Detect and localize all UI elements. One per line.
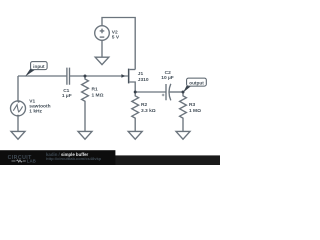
junction node source/R2 [134,91,137,94]
ground below R2 [128,131,142,139]
ground below V1 [11,131,25,139]
transistor J1 channel bar [128,69,129,84]
wire top rail V2 to drain [102,18,135,70]
transistor J1 gate arrow [121,74,125,78]
svg-text:1 µF: 1 µF [62,93,72,99]
wire V1 to ground [17,116,19,131]
V1 sawtooth glyph [13,105,22,112]
transistor J1 source lead [130,82,136,92]
transistor J1 drain lead [130,69,136,71]
svg-text:C2: C2 [165,70,171,76]
wire V2 to ground [101,40,103,57]
ground below V2 [95,57,109,64]
svg-text:1 MΩ: 1 MΩ [92,93,104,99]
svg-text:J310: J310 [138,77,149,83]
output flag [183,78,206,92]
transistor J1 gate wire [70,75,128,77]
svg-text:1 kHz: 1 kHz [29,108,42,114]
svg-text:LAB: LAB [27,158,36,163]
svg-text:R2: R2 [141,102,147,108]
junction node output/R3 [182,91,185,94]
resistor R2 [132,92,139,131]
svg-text:10 µF: 10 µF [161,75,174,81]
ground below R3 [176,131,190,139]
wire input row left [18,75,67,77]
svg-text:input: input [33,64,45,69]
svg-text:3.3 kΩ: 3.3 kΩ [141,108,156,114]
wire left rail to V1 [17,76,19,101]
V1 minus mark [17,114,19,116]
CircuitLab logo LAB row [12,160,26,162]
resistor R3 [180,92,187,131]
C2 plus mark [162,94,165,97]
wire source node to C2 [135,91,166,93]
junction node C1/R1 [84,75,87,78]
capacitor C2 [166,84,171,101]
svg-text:R1: R1 [92,86,98,92]
V2 plus sign [100,29,105,34]
watermark logo box [0,150,115,165]
ground below R1 [78,131,92,139]
V2 minus sign [100,36,105,38]
svg-text:J1: J1 [138,71,144,77]
wire C2 to output node [169,91,183,93]
capacitor C1 [67,68,70,85]
watermark bar full width [0,155,220,165]
voltage source V2 [95,26,110,41]
V1 plus mark [18,101,20,103]
svg-text:C1: C1 [63,88,69,94]
voltage source V1 [11,101,26,116]
svg-text:R3: R3 [189,102,195,108]
resistor R1 [82,76,89,131]
input flag [25,62,47,77]
svg-text:output: output [189,80,204,85]
svg-text:1 MΩ: 1 MΩ [189,108,201,114]
svg-text:http://circuitlab.com/cs48vkp: http://circuitlab.com/cs48vkp [46,156,102,161]
svg-text:5 V: 5 V [112,34,120,40]
